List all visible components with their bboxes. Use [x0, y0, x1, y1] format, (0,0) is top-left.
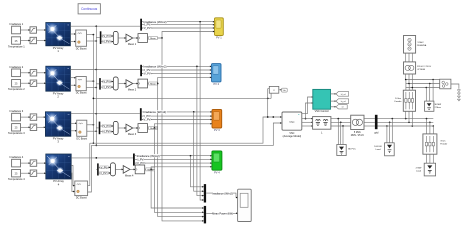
label Irradiance (W/m2) row 1 — [143, 20, 167, 24]
source Irradiance 3 — [10, 109, 24, 121]
grid measurement bus B1 — [374, 115, 379, 135]
svg-text:Vdc: Vdc — [283, 90, 286, 92]
label I_PV tag row 4 — [100, 172, 109, 176]
wire gain to mean block row 4 — [130, 169, 136, 171]
wire irradiance 3 down to recorder mux — [194, 112, 204, 192]
wire control to tag Id_ref — [331, 93, 337, 95]
label V_PV tag row 4 — [99, 166, 109, 170]
svg-text:2500MVA: 2500MVA — [417, 44, 427, 47]
svg-text:120 kV / 25 kV: 120 kV / 25 kV — [417, 66, 432, 68]
svg-text:<I_PV>: <I_PV> — [103, 131, 112, 134]
source Temperature 4 (25) — [8, 170, 25, 182]
wire I_PV signal row 1 — [142, 24, 215, 26]
svg-text:Irradiance (W/m2): Irradiance (W/m2) — [143, 65, 166, 69]
svg-text:DC Boost: DC Boost — [76, 47, 87, 50]
wire control to tag Iq_ref — [331, 100, 337, 102]
three-phase 25kV lines — [378, 119, 434, 126]
svg-text:<V_PV>: <V_PV> — [142, 26, 152, 30]
scope PV 4 — [212, 151, 222, 175]
goto tag Vdc — [282, 88, 288, 92]
wire mean power to scope row 1 — [157, 31, 214, 39]
PV Array 2 block — [46, 66, 71, 98]
svg-text:DC Boost: DC Boost — [76, 197, 87, 200]
svg-text:VSC: VSC — [289, 120, 294, 124]
ramp block 4b — [30, 170, 37, 176]
label I_PV tag row 2 — [102, 86, 111, 90]
ramp block 4a — [30, 160, 37, 166]
wire gain to mean block row 3 — [132, 127, 138, 129]
mean power block row 2 — [138, 79, 148, 88]
wire Temperature2 to ramp — [21, 82, 31, 84]
DC Boost converter 1 — [76, 30, 87, 50]
wire PV2 - to DC boost — [70, 84, 76, 86]
svg-text:120kV: 120kV — [417, 42, 424, 44]
wire Temperature1 to ramp — [21, 40, 31, 42]
source Irradiance 2 — [10, 65, 24, 77]
wire I_PV to mux row 3 — [100, 131, 113, 133]
svg-text:grid: grid — [374, 132, 379, 135]
label Irradiance (W/m2) row 2 — [143, 65, 167, 69]
svg-text:(Average Model): (Average Model) — [283, 135, 302, 138]
B0 power measurement block — [337, 145, 357, 156]
ramp block 1a — [30, 27, 37, 33]
ramp block 3b — [30, 124, 37, 130]
DC- bus vertical — [95, 26, 97, 146]
gain Mean 3 — [126, 124, 137, 136]
label Irradiance (W/m2) recorder — [212, 191, 233, 195]
label mean tag row 4 — [146, 168, 155, 172]
wire gain to mean block row 2 — [132, 83, 138, 85]
wire Irradiance2 to ramp — [21, 72, 31, 74]
svg-text:<V_PV>: <V_PV> — [102, 125, 112, 128]
svg-text:<I_PV>: <I_PV> — [136, 157, 145, 161]
wire DC boost 4 - output riser — [88, 145, 92, 192]
svg-text:<V_PV>: <V_PV> — [142, 118, 152, 122]
mux row 3 — [113, 122, 118, 135]
svg-text:PV 4: PV 4 — [214, 170, 220, 174]
svg-text:260V / 25 kV: 260V / 25 kV — [351, 135, 365, 137]
wire Irradiance signal row 2 — [142, 66, 212, 68]
wire V_PV to mux row 1 — [101, 35, 113, 37]
label I_PV tag row 3 — [102, 130, 111, 134]
source Irradiance 1 — [10, 22, 24, 34]
ramp block 2a — [30, 70, 37, 76]
source Temperature 2 (25) — [8, 80, 25, 92]
scope PV 3 — [212, 109, 222, 132]
svg-text:Mean 2: Mean 2 — [128, 89, 137, 92]
wire V_PV signal row 1 — [142, 27, 215, 29]
svg-text:Mean: Mean — [150, 38, 156, 40]
svg-text:Irradiance (W/m2): Irradiance (W/m2) — [143, 110, 166, 114]
svg-text:Feeder: Feeder — [395, 100, 402, 103]
source Temperature 1 (25) — [8, 37, 25, 49]
wire DC link branch to Vdc measurement — [93, 98, 272, 100]
svg-text:PV 1: PV 1 — [216, 36, 222, 40]
B2 measurement block — [440, 79, 451, 89]
120kV bus lines — [406, 80, 440, 88]
wires L to transformer 3-phase — [331, 119, 351, 126]
wire gain to mean block row 1 — [132, 37, 138, 39]
wire PV4 - to DC boost 4 — [71, 173, 75, 192]
DC Boost converter 3 — [76, 120, 87, 140]
wire DC boost 1 + output — [87, 34, 95, 36]
DC+ bus vertical — [93, 35, 95, 144]
wire ramp to PV1 T input — [37, 40, 46, 42]
label V_PV row 2 — [142, 72, 152, 76]
svg-text:Mean 3: Mean 3 — [128, 133, 137, 136]
wire Irradiance signal row 1 — [142, 21, 215, 23]
wire Irradiance4 to ramp — [21, 162, 31, 164]
bus selector 4a — [133, 154, 135, 166]
label Irradiance (W/m2) row 3 — [143, 110, 167, 114]
wire mean block to tag row 4 — [144, 168, 145, 170]
wire mux to gain row 4 — [115, 169, 123, 171]
svg-text:Continuous: Continuous — [81, 7, 98, 11]
wire mean power 2 down to recorder mux — [158, 84, 204, 218]
wire irradiance 4 down to recorder mux — [191, 156, 204, 188]
gain Mean 4 — [123, 166, 134, 178]
wires feeder bottom pins — [406, 111, 413, 126]
wire I_PV to mux row 2 — [101, 86, 114, 88]
load 100 kW — [374, 143, 394, 156]
wire control to tag wt — [331, 106, 337, 108]
label V_PV row 3 — [142, 118, 152, 122]
svg-text:<V_PV>: <V_PV> — [102, 81, 112, 84]
wire ramp to PV1 Ir input — [37, 29, 46, 31]
svg-text:Load: Load — [416, 171, 422, 173]
svg-text:47 MVA: 47 MVA — [417, 68, 425, 71]
svg-text:Load: Load — [376, 149, 382, 151]
mean power block row 3 — [138, 124, 148, 133]
svg-text:Irradiance 4: Irradiance 4 — [10, 155, 24, 159]
mean power block row 4 — [135, 165, 145, 174]
wire V_PV to mux row 3 — [100, 125, 113, 127]
label I_PV row 2 — [143, 68, 152, 72]
scope Mean Power vs Irradiance — [238, 189, 252, 221]
bus selector 3b — [99, 122, 101, 135]
wire PV1 - to DC boost — [70, 41, 75, 43]
PV Array 1 block — [46, 23, 71, 54]
wires transformer to 120kV bus — [406, 74, 413, 88]
wire V_PV signal row 2 — [142, 73, 212, 75]
svg-text:Mean: Mean — [150, 128, 156, 130]
wire VSC AC phase C — [302, 125, 313, 126]
wire I_PV signal row 4 — [135, 159, 212, 161]
transformer 5 MVA 260V/25kV — [351, 115, 365, 137]
svg-text:VSC Control: VSC Control — [315, 110, 329, 113]
label mean tag row 3 — [149, 127, 158, 131]
wires feeder to 2MW load — [427, 154, 434, 163]
wire DC boost 3 + output — [87, 124, 94, 126]
mux row 4 — [111, 163, 116, 176]
label I_PV row 4 — [136, 157, 145, 161]
wire mean block to tag row 2 — [147, 83, 148, 85]
svg-text:Temperature 1: Temperature 1 — [8, 44, 25, 48]
wire mean power 4 down to recorder mux — [151, 169, 204, 208]
svg-text:Mean: Mean — [150, 84, 156, 86]
ramp block 2b — [30, 80, 37, 86]
svg-text:30 MW: 30 MW — [435, 104, 442, 106]
wire DC boost 1 - output — [87, 40, 98, 42]
wires source to grid transformer — [406, 53, 413, 62]
wire ramp to PV3 Ir input — [37, 116, 46, 118]
wires feeder top pins — [406, 80, 413, 91]
wire mux to gain row 3 — [118, 127, 126, 129]
wire mean block to tag row 3 — [147, 127, 148, 129]
svg-text:<I_PV>: <I_PV> — [100, 172, 109, 175]
wire V_PV signal row 3 — [142, 119, 212, 121]
svg-text:<I_PV>: <I_PV> — [103, 41, 112, 44]
svg-text:Irradiance (W/m2): Irradiance (W/m2) — [212, 191, 233, 195]
VSC (Average Model) block — [282, 112, 302, 138]
svg-text:Irradiance 1: Irradiance 1 — [10, 22, 24, 26]
label Irradiance (W/m2) row 4 — [136, 154, 160, 158]
svg-text:DC Boost: DC Boost — [76, 92, 87, 95]
wire m branch down to bus selector 3b — [96, 127, 98, 129]
wire irradiance mux output — [206, 193, 238, 198]
svg-text:Irradiance 2: Irradiance 2 — [10, 65, 24, 69]
svg-text:Mean Power (kW): Mean Power (kW) — [212, 212, 233, 216]
svg-text:Mean 1: Mean 1 — [128, 43, 137, 46]
wire PV3 - to DC boost — [71, 130, 77, 132]
wires 30MW load risers — [426, 80, 433, 102]
wire VSC AC phase A — [302, 118, 313, 119]
grid transformer 120kV/25kV 47MVA — [404, 62, 432, 74]
junctions to B0 measurement — [337, 118, 343, 145]
wire phase meas to control — [305, 102, 313, 119]
wire Vdc - probe — [270, 93, 272, 98]
svg-text:2 Mvar: 2 Mvar — [435, 106, 442, 109]
wire Irradiance1 to ramp — [21, 29, 31, 31]
svg-text:5 MVA: 5 MVA — [354, 131, 361, 134]
wire Temperature3 to ramp — [21, 126, 31, 128]
label V_PV tag row 2 — [102, 80, 112, 84]
wire ramp to PV3 T input — [37, 126, 46, 128]
label V_PV row 4 — [135, 161, 145, 165]
svg-text:PV 3: PV 3 — [214, 128, 220, 132]
wire irradiance 1 down to recorder mux — [200, 22, 204, 201]
label Mean Power (kW) recorder — [212, 212, 233, 216]
bus selector 1a — [140, 19, 142, 31]
wires 100 kW load risers — [387, 119, 392, 143]
wire V_PV signal row 4 — [135, 162, 212, 164]
wire DC boost 2 - output — [86, 87, 97, 89]
wire I_PV to mux row 1 — [101, 41, 113, 43]
wire B2 output — [451, 84, 459, 89]
gain Mean 1 — [126, 34, 137, 46]
wire VSC m to control — [302, 96, 313, 113]
goto tag Id_ref — [336, 92, 349, 97]
wire m branch down to bus selector 1b — [96, 37, 100, 39]
wire PV3 m measurement — [71, 113, 140, 115]
source 120kV 2500MVA — [404, 36, 427, 54]
ramp block 1b — [30, 37, 37, 43]
svg-text:100 kW: 100 kW — [374, 146, 382, 148]
wire DC boost 3 - output — [87, 130, 97, 132]
goto tag Iq_ref — [336, 99, 349, 104]
svg-text:DC Boost: DC Boost — [76, 137, 87, 140]
source Irradiance 4 — [10, 155, 24, 167]
VSC Control block — [313, 89, 331, 113]
wire ramp to PV2 T input — [37, 82, 46, 84]
svg-text:Temperature 2: Temperature 2 — [8, 87, 25, 91]
wire m branch down to bus selector 4b — [95, 168, 98, 170]
svg-text:Mean 4: Mean 4 — [125, 174, 134, 177]
svg-text:<I_PV>: <I_PV> — [143, 114, 152, 118]
wire I_PV signal row 2 — [142, 69, 212, 71]
PV Array 4 block — [46, 154, 71, 186]
wire mux to gain row 1 — [118, 37, 126, 39]
svg-text:2 MW: 2 MW — [416, 168, 423, 170]
svg-text:<V_PV>: <V_PV> — [102, 35, 112, 38]
wire Temperature4 to ramp — [21, 172, 31, 174]
wire ramp to PV2 Ir input — [37, 72, 46, 74]
load 2 MW — [416, 163, 436, 176]
wire mean block to tag row 1 — [147, 37, 148, 39]
bus selector 1b — [100, 31, 102, 44]
svg-text:Id_ref: Id_ref — [341, 94, 347, 96]
wire mean power to scope row 2 — [157, 77, 212, 85]
svg-text:Irradiance (W/m2): Irradiance (W/m2) — [137, 154, 160, 158]
wire I_PV signal row 3 — [142, 115, 212, 117]
wire V_PV to mux row 2 — [101, 81, 114, 83]
wire Irradiance3 to ramp — [21, 116, 31, 118]
wire PV2 + to DC boost — [70, 77, 76, 79]
bus selector 2b — [99, 78, 101, 90]
svg-text:<V_PV>: <V_PV> — [135, 161, 145, 165]
mux irradiance recorder — [204, 184, 206, 202]
mean power block row 1 — [138, 34, 148, 43]
wire VSC AC phase B — [302, 122, 313, 123]
bus selector 3a — [140, 108, 142, 120]
ramp block 3a — [30, 114, 37, 120]
svg-text:Temperature 4: Temperature 4 — [8, 177, 25, 181]
label V_PV tag row 3 — [102, 125, 112, 129]
wires transformer to grid bus — [364, 119, 375, 126]
wire V_PV to mux row 4 — [99, 167, 111, 169]
wire mean power 1 down to recorder mux — [162, 38, 204, 222]
source Temperature 3 (25) — [8, 124, 25, 136]
wire ramp to PV4 Ir input — [37, 162, 46, 164]
wire Irradiance signal row 4 — [135, 155, 212, 157]
wire mean power 3 down to recorder mux — [154, 128, 203, 213]
choke inductor L — [313, 117, 331, 135]
powergui block (Continuous) — [78, 4, 100, 14]
label V_PV row 1 — [142, 26, 152, 30]
wire PV3 + to DC boost — [71, 122, 77, 124]
wire DC- bus horizontal — [91, 116, 281, 145]
wire mean power to scope row 4 — [150, 166, 212, 170]
svg-text:<I_PV>: <I_PV> — [103, 86, 112, 89]
wire mean power mux output — [206, 212, 238, 214]
svg-text:<V_PV>: <V_PV> — [142, 72, 152, 76]
mux row 2 — [113, 77, 118, 90]
wire mean power to scope row 3 — [154, 123, 212, 129]
label I_PV row 3 — [143, 114, 152, 118]
svg-text:Temperature 3: Temperature 3 — [8, 131, 25, 135]
wire Irradiance signal row 3 — [142, 111, 212, 113]
DC Boost converter 2 — [76, 77, 87, 95]
junction dots 25kV lines — [386, 118, 434, 127]
PV Array 3 block — [45, 112, 70, 144]
grounding load symbol — [457, 90, 460, 101]
svg-text:8 km: 8 km — [441, 141, 446, 143]
wire PV1 m measurement — [70, 25, 140, 27]
wire I_PV to mux row 4 — [99, 172, 111, 174]
wire m branch down to bus selector 2b — [96, 83, 99, 85]
wire DC boost 4 + output riser — [88, 143, 90, 185]
svg-text:B0 Pinv: B0 Pinv — [348, 149, 356, 151]
wire PV4 + to DC boost 4 — [71, 166, 75, 187]
wire ramp to PV4 T input — [37, 172, 46, 174]
gain Mean 2 — [126, 80, 137, 92]
wire DC boost 2 + output — [86, 80, 94, 82]
svg-text:Feeder: Feeder — [440, 143, 447, 146]
label I_PV row 1 — [143, 23, 152, 27]
scope PV 1 — [215, 18, 224, 40]
svg-text:PV 2: PV 2 — [213, 82, 219, 86]
bus selector 4b — [97, 163, 99, 175]
junction dots 120kV bus — [405, 79, 434, 89]
goto tag wt — [336, 105, 347, 109]
wire PV1 + to DC boost — [70, 33, 75, 35]
label V_PV tag row 1 — [102, 35, 112, 39]
voltage measurement Vdc — [269, 86, 279, 93]
wire Vdc + probe — [267, 89, 269, 118]
svg-text:Irradiance 3: Irradiance 3 — [10, 109, 24, 113]
wire PV4 m measurement — [71, 157, 133, 159]
DC Boost converter 4 — [75, 181, 88, 200]
wire PV2 m measurement — [70, 69, 140, 71]
svg-text:<I_PV>: <I_PV> — [143, 68, 152, 72]
feeder 14 km — [395, 90, 416, 111]
mux mean power recorder — [204, 206, 206, 224]
svg-text:14 km: 14 km — [395, 98, 401, 100]
svg-text:Iq_ref: Iq_ref — [341, 101, 347, 103]
label I_PV tag row 1 — [102, 40, 111, 44]
scope PV 2 — [212, 64, 222, 87]
wire irradiance 2 down to recorder mux — [197, 66, 204, 196]
svg-text:<V_PV>: <V_PV> — [99, 166, 109, 169]
wire DC+ bus horizontal — [90, 116, 282, 143]
load 30 MW 2 Mvar — [425, 101, 442, 111]
mux row 1 — [113, 32, 118, 45]
label mean tag row 2 — [149, 82, 158, 86]
label mean tag row 1 — [149, 37, 158, 41]
wire mux to gain row 2 — [118, 83, 126, 85]
feeder 8 km — [423, 134, 448, 154]
wire Vdc meas to tag — [279, 89, 282, 90]
wires 25kV to 8km feeder — [427, 119, 434, 134]
bus selector 2a — [140, 65, 142, 76]
